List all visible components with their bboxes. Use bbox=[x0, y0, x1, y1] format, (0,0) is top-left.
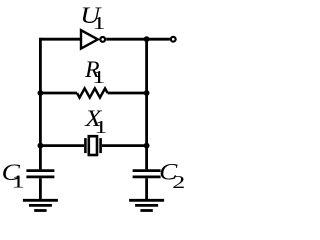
wire top-left horizontal (node to U1 input) bbox=[40, 38, 81, 41]
wire crystal row left bbox=[40, 144, 84, 147]
ground left bbox=[23, 200, 58, 210]
capacitor C2 bottom plate bbox=[133, 175, 161, 178]
node junction dot crystal right bbox=[144, 143, 150, 149]
crystal X1 left plate bbox=[84, 138, 87, 153]
crystal X1 body rectangle bbox=[89, 136, 97, 155]
svg-text:1: 1 bbox=[92, 67, 105, 87]
ground right bbox=[129, 200, 164, 210]
wire crystal row right bbox=[102, 144, 147, 147]
crystal X1 right plate bbox=[99, 138, 102, 153]
node junction dot resistor left bbox=[38, 90, 44, 96]
wire C1 to ground bbox=[39, 178, 42, 199]
node junction dot crystal left bbox=[38, 143, 44, 149]
svg-text:1: 1 bbox=[93, 13, 106, 33]
wire resistor row right bbox=[108, 92, 147, 95]
node junction dot top right bbox=[144, 36, 150, 42]
terminal output node (open circle) bbox=[171, 37, 176, 42]
capacitor C2 top plate bbox=[133, 169, 161, 172]
wire C2 to ground bbox=[145, 178, 148, 199]
wire resistor row left bbox=[40, 92, 77, 95]
capacitor C1 top plate bbox=[26, 169, 54, 172]
svg-text:1: 1 bbox=[12, 171, 25, 191]
wire U1 output to terminal bbox=[106, 38, 170, 41]
svg-text:2: 2 bbox=[172, 172, 185, 192]
node junction dot resistor right bbox=[144, 90, 150, 96]
op-amp U1 inverting bubble bbox=[100, 37, 105, 42]
resistor R1 zigzag bbox=[77, 88, 108, 97]
svg-text:1: 1 bbox=[94, 117, 107, 137]
capacitor C1 bottom plate bbox=[26, 175, 54, 178]
wire left vertical bus bbox=[39, 38, 42, 170]
op-amp U1 inverter triangle bbox=[81, 30, 98, 48]
wire right vertical bus bbox=[145, 38, 148, 170]
